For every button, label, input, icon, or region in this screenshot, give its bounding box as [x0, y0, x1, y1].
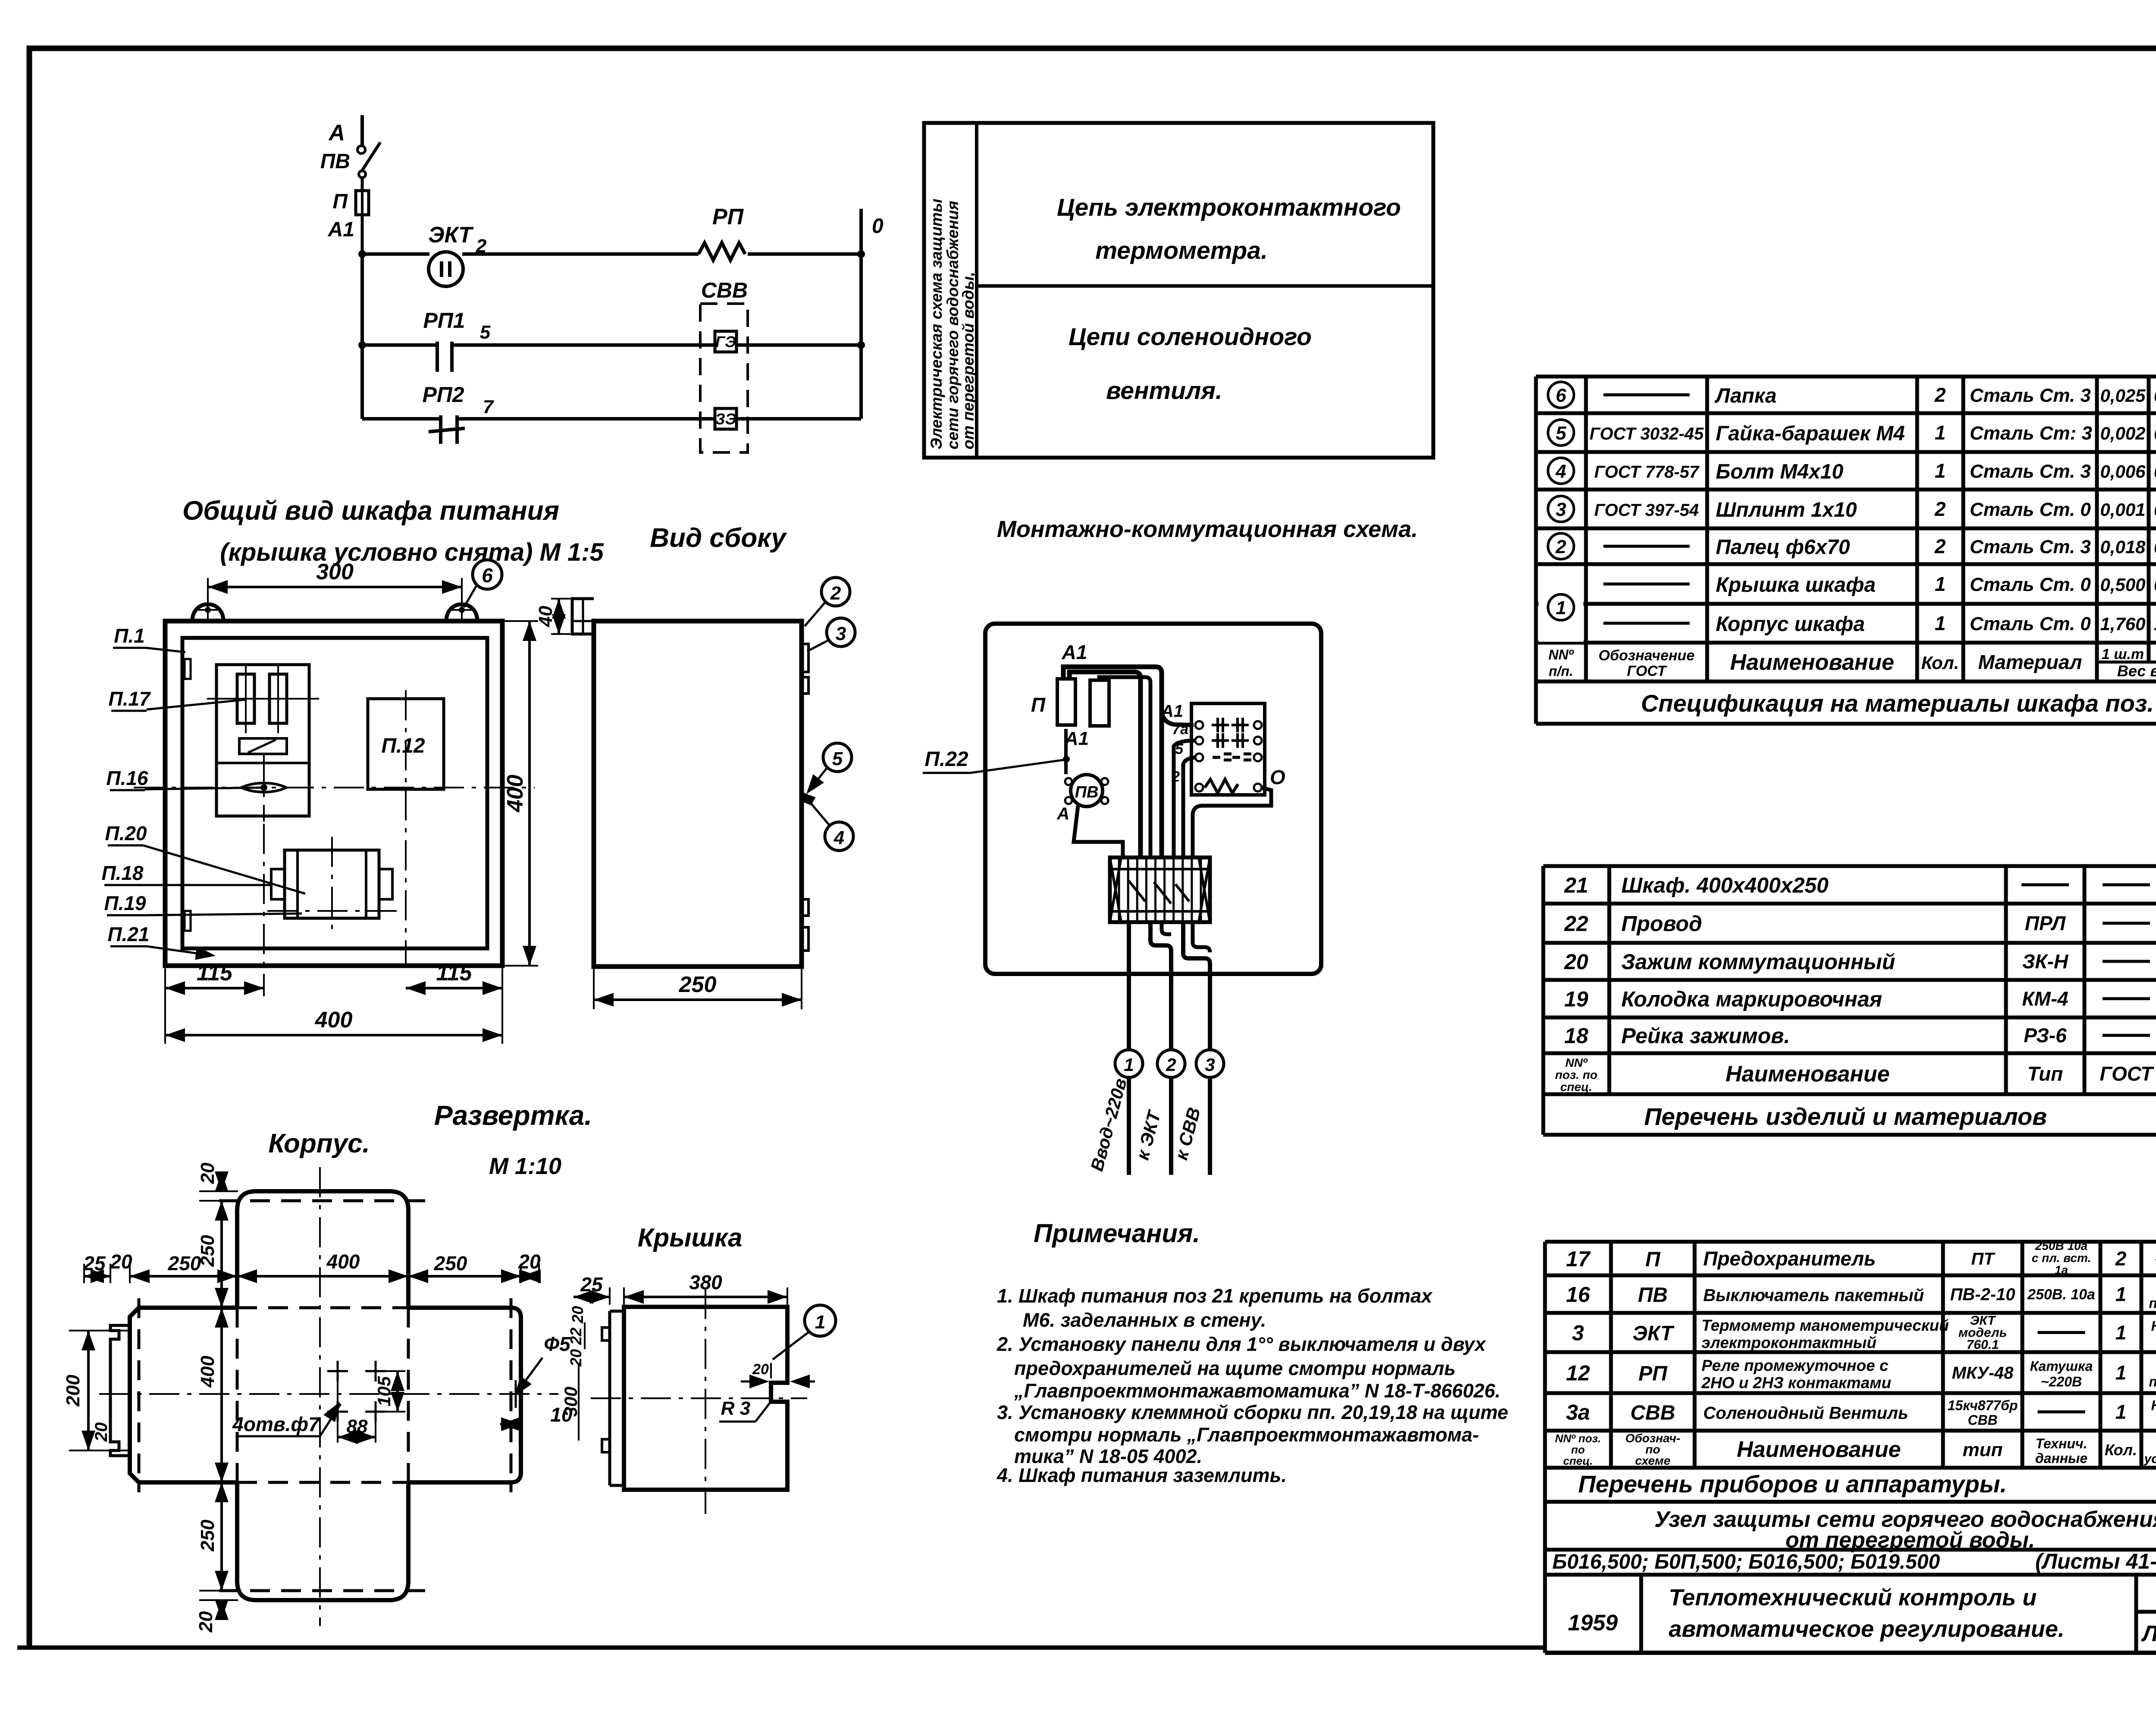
- svg-text:ГОСТ: ГОСТ: [1627, 663, 1667, 679]
- svg-text:сети горячего водоснабжения: сети горячего водоснабжения: [944, 201, 962, 449]
- svg-text:7а: 7а: [1172, 721, 1188, 738]
- table 2 rows content: [1564, 869, 2156, 1048]
- svg-text:П.20: П.20: [105, 822, 147, 844]
- device P12 rectangle: [368, 690, 444, 966]
- legend cell 2 text: [1069, 323, 1312, 405]
- svg-text:300: 300: [316, 559, 354, 584]
- svg-text:Примечания.: Примечания.: [1034, 1219, 1200, 1248]
- svg-text:0,036: 0,036: [2154, 537, 2156, 557]
- side view lug dimension 40: [535, 599, 570, 634]
- svg-text:П.22: П.22: [924, 748, 968, 771]
- svg-text:300: 300: [561, 1387, 581, 1417]
- svg-text:6: 6: [482, 564, 493, 587]
- korpus hole F5 and dim 10: [500, 1333, 573, 1431]
- svg-text:Монтажно-коммутационная схема.: Монтажно-коммутационная схема.: [997, 516, 1418, 542]
- svg-text:О: О: [1270, 766, 1285, 788]
- table 1 specification grid: [1536, 377, 2156, 724]
- svg-text:0,006: 0,006: [2100, 461, 2146, 482]
- svg-text:400: 400: [197, 1356, 218, 1388]
- svg-text:250: 250: [679, 972, 717, 997]
- svg-text:СВВ: СВВ: [701, 278, 748, 302]
- kryshka left dims: [561, 1306, 586, 1441]
- svg-text:ГОСТ 778-57: ГОСТ 778-57: [1594, 463, 1699, 482]
- montage label A1 mid: [1064, 728, 1089, 749]
- svg-text:Предохранитель: Предохранитель: [1703, 1247, 1876, 1270]
- table 1 footer title: [1641, 690, 2156, 717]
- svg-text:электроконтактный: электроконтактный: [1702, 1334, 1877, 1352]
- svg-text:Перечень приборов и аппарат: Перечень приборов и аппаратуры.: [1578, 1470, 2007, 1497]
- montage cable 2 bends: [1150, 922, 1171, 1050]
- svg-text:питания: питания: [2149, 1296, 2156, 1311]
- wire circle 1: [1087, 1050, 1143, 1175]
- left bus wire: [358, 254, 366, 419]
- svg-text:На агре-: На агре-: [2151, 1398, 2156, 1413]
- svg-text:250В 10а: 250В 10а: [2035, 1239, 2087, 1253]
- side view dimension 250: [594, 968, 802, 1009]
- svg-text:Гайка-барашек М4: Гайка-барашек М4: [1716, 422, 1905, 445]
- svg-text:(Листы 41-46): (Листы 41-46): [2035, 1549, 2156, 1573]
- svg-text:0,006: 0,006: [2154, 461, 2156, 482]
- contact RP1 (NO): [423, 308, 490, 372]
- svg-text:2НО и 2НЗ контактами: 2НО и 2НЗ контактами: [1701, 1374, 1891, 1392]
- montage wire PV to terminal block: [1066, 729, 1123, 857]
- svg-text:П.17: П.17: [108, 687, 151, 710]
- svg-text:Б016,500; Б0П,500; Б016,500; Б: Б016,500; Б0П,500; Б016,500; Б019.500: [1552, 1551, 1940, 1573]
- kryshka callout 1: [773, 1305, 836, 1359]
- svg-text:КМ-4: КМ-4: [2022, 988, 2068, 1010]
- svg-text:0,018: 0,018: [2100, 537, 2146, 557]
- kryshka notch dim 20: [741, 1361, 815, 1388]
- svg-text:5: 5: [480, 322, 491, 343]
- svg-text:20: 20: [567, 1349, 585, 1367]
- svg-text:1: 1: [815, 1312, 825, 1333]
- svg-text:1959: 1959: [1568, 1610, 1618, 1636]
- svg-text:(крышка условно снята) М 1:5: (крышка условно снята) М 1:5: [220, 538, 604, 566]
- solenoid valve SVV dashed box: [700, 278, 748, 452]
- electromagnet GE box on line 2: [715, 331, 736, 352]
- svg-text:5: 5: [832, 748, 843, 769]
- svg-text:Сталь Ст. 3: Сталь Ст. 3: [1970, 537, 2091, 558]
- svg-text:1: 1: [1935, 573, 1946, 595]
- svg-text:4отв.ф7: 4отв.ф7: [232, 1413, 320, 1435]
- svg-text:Сталь Ст: 3: Сталь Ст: 3: [1970, 423, 2092, 444]
- cabinet dimension 400 right: [503, 621, 538, 966]
- svg-text:1а: 1а: [2055, 1263, 2068, 1277]
- svg-text:2: 2: [1934, 498, 1946, 520]
- svg-text:Шкаф. 400х400х250: Шкаф. 400х400х250: [1621, 873, 1829, 898]
- svg-text:1: 1: [2115, 1362, 2127, 1384]
- svg-text:0,002: 0,002: [2154, 499, 2156, 520]
- svg-text:А1: А1: [1064, 728, 1089, 749]
- svg-text:тип: тип: [1963, 1439, 2003, 1460]
- thermometer EKT: [428, 223, 487, 286]
- korpus mounting holes: [327, 1361, 386, 1422]
- svg-text:1: 1: [2115, 1283, 2127, 1306]
- svg-text:п/п.: п/п.: [1549, 663, 1573, 679]
- cabinet mounting lug right: [446, 599, 477, 621]
- svg-text:с пл. вст.: с пл. вст.: [2032, 1251, 2091, 1265]
- svg-text:А1: А1: [1062, 641, 1087, 663]
- svg-text:Вид сбоку: Вид сбоку: [650, 523, 787, 553]
- svg-text:115: 115: [436, 961, 473, 986]
- svg-text:3а: 3а: [1566, 1400, 1590, 1425]
- title block: [1545, 1575, 2156, 1653]
- callout 5: [806, 743, 852, 794]
- table 3 devices grid: [1545, 1242, 2156, 1468]
- svg-text:П.19: П.19: [104, 892, 146, 914]
- svg-text:0,002: 0,002: [2154, 423, 2156, 443]
- svg-text:питания: питания: [2149, 1374, 2156, 1390]
- packet switch handle P16: [241, 755, 286, 822]
- title: side view: [650, 523, 787, 553]
- svg-text:400: 400: [315, 1008, 353, 1033]
- svg-text:1: 1: [1556, 597, 1566, 618]
- svg-text:Крышка шкафа: Крышка шкафа: [1716, 574, 1876, 596]
- svg-text:NNº: NNº: [1565, 1056, 1588, 1070]
- kryshka outline: [602, 1307, 787, 1490]
- svg-text:Тип: Тип: [2028, 1063, 2063, 1085]
- svg-text:1: 1: [2115, 1322, 2127, 1344]
- title: general view of power cabinet: [182, 496, 604, 566]
- label P21: [107, 923, 216, 960]
- svg-text:0,001: 0,001: [2100, 499, 2145, 520]
- svg-text:ЗК-Н: ЗК-Н: [2022, 950, 2068, 973]
- svg-text:А: А: [328, 120, 345, 145]
- svg-text:ПВ: ПВ: [320, 150, 350, 173]
- svg-text:ЗЭ: ЗЭ: [715, 410, 736, 428]
- korpus centerlines: [99, 1167, 558, 1626]
- svg-text:1: 1: [1935, 460, 1946, 482]
- svg-text:760.1: 760.1: [1966, 1338, 1999, 1352]
- svg-text:П.16: П.16: [106, 767, 148, 789]
- svg-text:NNº: NNº: [1548, 647, 1574, 662]
- svg-text:РП1: РП1: [423, 308, 465, 333]
- svg-text:спец.: спец.: [1560, 1080, 1592, 1094]
- montage wire relay coil return: [1193, 788, 1271, 857]
- svg-text:4: 4: [1555, 461, 1566, 482]
- title razvertka: [434, 1100, 592, 1131]
- svg-text:Теплотехнический контроль и: Теплотехнический контроль и: [1669, 1585, 2037, 1610]
- svg-text:П: П: [1031, 694, 1046, 716]
- svg-text:вентиля.: вентиля.: [1106, 377, 1222, 405]
- wire circle 2: [1132, 1050, 1185, 1175]
- svg-text:2: 2: [1934, 384, 1946, 406]
- svg-text:Болт М4х10: Болт М4х10: [1716, 461, 1843, 483]
- svg-text:Вес в кг.: Вес в кг.: [2117, 662, 2156, 680]
- svg-text:А: А: [1056, 804, 1069, 823]
- svg-text:2: 2: [476, 235, 487, 257]
- montage node for P22 leader: [1063, 756, 1070, 763]
- label P20: [105, 822, 305, 894]
- svg-text:20: 20: [518, 1250, 541, 1273]
- label P17: [108, 687, 246, 711]
- svg-text:ГОСТ: ГОСТ: [2100, 1063, 2155, 1085]
- notes title: [1034, 1219, 1200, 1248]
- kryshka centerlines: [591, 1289, 807, 1514]
- fuse panel P17: [207, 664, 319, 816]
- svg-text:2: 2: [2115, 1247, 2127, 1270]
- dimension 300 between lugs: [208, 559, 462, 603]
- svg-text:Цепи соленоидного: Цепи соленоидного: [1069, 323, 1312, 351]
- title M 1:10: [489, 1153, 561, 1179]
- svg-text:СВВ: СВВ: [1968, 1413, 1997, 1428]
- svg-text:Выключатель пакетный: Выключатель пакетный: [1703, 1286, 1924, 1305]
- svg-text:1: 1: [1935, 612, 1946, 634]
- callout 3: [807, 618, 855, 651]
- svg-text:20: 20: [92, 1422, 111, 1442]
- svg-text:схеме: схеме: [1635, 1454, 1670, 1467]
- svg-text:20: 20: [569, 1306, 586, 1324]
- wire circle 3: [1171, 1050, 1224, 1175]
- svg-text:спец.: спец.: [1563, 1454, 1593, 1467]
- svg-text:17: 17: [1566, 1247, 1591, 1271]
- svg-text:0,500: 0,500: [2154, 574, 2156, 595]
- svg-text:Наименование: Наименование: [1737, 1437, 1901, 1462]
- cabinet centerline horizontal: [134, 787, 535, 788]
- montage wires relay left to terminal block: [1174, 741, 1195, 857]
- svg-text:88: 88: [347, 1416, 368, 1437]
- svg-text:ПВ-2-10: ПВ-2-10: [1950, 1285, 2015, 1304]
- svg-text:Корпус шкафа: Корпус шкафа: [1716, 613, 1865, 636]
- svg-text:ПТ: ПТ: [1971, 1249, 1996, 1268]
- svg-text:25: 25: [580, 1273, 603, 1296]
- label P18: [101, 862, 271, 885]
- callout 2: [805, 578, 850, 626]
- svg-text:2: 2: [1166, 1055, 1176, 1075]
- table 1 rows content: [1548, 382, 2156, 636]
- svg-text:250: 250: [168, 1252, 201, 1275]
- wire switch to fuse: [361, 177, 364, 191]
- svg-text:Кол.: Кол.: [2105, 1441, 2137, 1459]
- svg-text:250: 250: [434, 1252, 467, 1275]
- title kryshka: [638, 1223, 743, 1252]
- svg-text:поз. по: поз. по: [1555, 1068, 1597, 1082]
- svg-text:0,025: 0,025: [2100, 386, 2146, 406]
- svg-text:Перечень изделий и материал: Перечень изделий и материалов: [1644, 1103, 2047, 1130]
- svg-text:На агре-: На агре-: [2151, 1318, 2156, 1334]
- svg-text:~220В: ~220В: [2041, 1374, 2082, 1390]
- korpus dim 88: [338, 1378, 376, 1444]
- svg-text:Зажим коммутационный: Зажим коммутационный: [1621, 950, 1895, 974]
- svg-text:Развертка.: Развертка.: [434, 1100, 592, 1131]
- svg-text:1,760: 1,760: [2154, 614, 2156, 634]
- svg-text:П: П: [1645, 1248, 1661, 1271]
- svg-text:22: 22: [1564, 912, 1589, 936]
- side view top lug: [572, 599, 594, 634]
- svg-text:ЭКТ: ЭКТ: [428, 223, 474, 248]
- svg-text:Катушка: Катушка: [2030, 1359, 2093, 1374]
- svg-text:П.12: П.12: [381, 735, 425, 757]
- svg-text:Реле промежуточное с: Реле промежуточное с: [1702, 1357, 1889, 1375]
- svg-text:„Главпроектмонтажавтоматика” N: „Главпроектмонтажавтоматика” N 18-Т-8660…: [1014, 1380, 1501, 1402]
- svg-text:3: 3: [1556, 499, 1566, 520]
- svg-text:термометра.: термометра.: [1095, 237, 1268, 264]
- svg-text:А1: А1: [328, 218, 354, 241]
- svg-text:1 ш.т: 1 ш.т: [2102, 646, 2144, 662]
- svg-text:автоматическое регулирование.: автоматическое регулирование.: [1669, 1616, 2065, 1642]
- svg-text:РП: РП: [712, 204, 744, 229]
- svg-text:Наименование: Наименование: [1730, 650, 1894, 675]
- cabinet dimension 400 bottom: [165, 996, 502, 1044]
- svg-text:Лист: Лист: [2141, 1621, 2156, 1646]
- korpus top dimension row: [83, 1250, 541, 1283]
- callout circle 6: [464, 560, 502, 607]
- svg-text:ЭКТ: ЭКТ: [1633, 1322, 1675, 1345]
- svg-text:А1: А1: [1161, 702, 1183, 721]
- svg-text:16: 16: [1566, 1283, 1591, 1307]
- svg-text:П.1: П.1: [114, 625, 144, 647]
- korpus left column vertical dims: [195, 1162, 238, 1632]
- svg-text:20: 20: [195, 1611, 216, 1632]
- svg-text:21: 21: [1564, 873, 1589, 898]
- svg-text:Технич.: Технич.: [2036, 1436, 2087, 1451]
- svg-text:Сталь Ст. 0: Сталь Ст. 0: [1970, 574, 2091, 595]
- svg-text:200: 200: [63, 1375, 84, 1407]
- svg-text:РП: РП: [1639, 1362, 1668, 1385]
- svg-text:400: 400: [326, 1250, 360, 1273]
- korpus hole leader 4otv: [232, 1402, 341, 1436]
- montage cable 1 to circle 1: [1127, 922, 1131, 1050]
- montage relay block: [1161, 702, 1285, 795]
- korpus left vertical dims 200 and 20: [63, 1331, 129, 1450]
- svg-text:Сталь Ст. 3: Сталь Ст. 3: [1970, 385, 2091, 406]
- table 2 footer title: [1644, 1103, 2047, 1130]
- svg-text:22: 22: [567, 1328, 585, 1345]
- svg-text:установки: установки: [2143, 1452, 2156, 1466]
- svg-text:1. Шкаф питания поз 21 крепи: 1. Шкаф питания поз 21 крепить на болтах: [997, 1285, 1433, 1307]
- legend vertical caption: [928, 199, 977, 449]
- callout 4: [811, 803, 853, 851]
- svg-text:0,025: 0,025: [2154, 386, 2156, 406]
- notes text: [997, 1285, 1508, 1486]
- table 3 rows content: [1566, 1239, 2156, 1429]
- electromagnet ZE box on line 3: [715, 408, 736, 429]
- svg-text:Палец ф6х70: Палец ф6х70: [1716, 536, 1850, 559]
- label P22 with leader: [923, 748, 1063, 773]
- relay coil RP (zigzag): [699, 204, 745, 260]
- montage scheme enclosure box: [985, 624, 1321, 974]
- node A label: [328, 120, 345, 145]
- kryshka R3 label: [719, 1398, 770, 1422]
- svg-text:Общий вид шкафа питания: Общий вид шкафа питания: [182, 496, 559, 526]
- svg-text:Провод: Провод: [1621, 912, 1702, 936]
- svg-text:250В. 10а: 250В. 10а: [2027, 1287, 2095, 1303]
- side view body: [594, 621, 802, 967]
- svg-text:1: 1: [1935, 421, 1946, 444]
- svg-text:Термометр манометрический: Термометр манометрический: [1702, 1317, 1949, 1334]
- svg-text:7: 7: [483, 396, 495, 418]
- cabinet front view outer body: [165, 621, 502, 966]
- korpus left tab with notches: [110, 1325, 130, 1456]
- svg-text:105: 105: [374, 1376, 394, 1406]
- svg-text:Материал: Материал: [1978, 651, 2082, 673]
- svg-text:250: 250: [197, 1235, 218, 1267]
- svg-text:5: 5: [1556, 423, 1567, 444]
- svg-text:Крышка: Крышка: [638, 1223, 743, 1252]
- node 0 right bus: [857, 209, 884, 419]
- montage fuse P: [1031, 679, 1075, 725]
- svg-text:40: 40: [535, 606, 556, 627]
- svg-text:0,002: 0,002: [2100, 423, 2145, 443]
- cabinet dimension 115 right: [406, 961, 502, 996]
- table 3 subtitle rows: [1545, 1468, 2156, 1653]
- table 2 products grid: [1543, 866, 2156, 1135]
- svg-text:Сталь Ст. 0: Сталь Ст. 0: [1970, 499, 2091, 520]
- svg-text:Цепь электроконтактного: Цепь электроконтактного: [1057, 194, 1401, 221]
- svg-text:М6. заделанных в стену.: М6. заделанных в стену.: [1023, 1309, 1266, 1331]
- svg-text:Шплинт 1х10: Шплинт 1х10: [1716, 499, 1857, 521]
- svg-text:Сталь Ст. 3: Сталь Ст. 3: [1970, 461, 2091, 482]
- svg-text:12: 12: [1566, 1361, 1590, 1385]
- svg-text:ГЭ: ГЭ: [715, 333, 736, 351]
- label P19: [104, 892, 302, 915]
- svg-text:115: 115: [197, 961, 233, 986]
- switch PV: [320, 142, 380, 178]
- svg-text:R 3: R 3: [721, 1398, 750, 1419]
- svg-text:от перегретой воды,: от перегретой воды,: [959, 272, 977, 449]
- title: montage-commutation scheme: [997, 516, 1418, 542]
- contact RP2 (NC): [422, 383, 494, 444]
- svg-text:18: 18: [1564, 1024, 1589, 1048]
- svg-text:1: 1: [2115, 1401, 2127, 1423]
- svg-text:2: 2: [830, 583, 841, 604]
- svg-text:МКУ-48: МКУ-48: [1952, 1364, 2014, 1383]
- fuse P: [332, 190, 369, 215]
- svg-text:Обозначение: Обозначение: [1598, 647, 1695, 664]
- cabinet mounting lug left: [192, 599, 223, 621]
- circuit line 2 wire: [362, 343, 861, 347]
- montage cable 3 bends: [1183, 922, 1210, 1050]
- svg-text:Кол.: Кол.: [1921, 653, 1959, 673]
- svg-text:Сталь Ст. 0: Сталь Ст. 0: [1970, 613, 2091, 634]
- svg-text:4: 4: [834, 827, 844, 848]
- circuit line 3 wire: [362, 417, 861, 421]
- wire fuse to node A1: [361, 215, 364, 254]
- svg-text:ГОСТ 397-54: ГОСТ 397-54: [1594, 501, 1699, 520]
- svg-text:ПВ: ПВ: [1075, 783, 1099, 801]
- svg-text:РЗ-6: РЗ-6: [2024, 1024, 2067, 1047]
- svg-text:250: 250: [197, 1519, 218, 1552]
- montage terminal block: [1110, 857, 1210, 922]
- svg-text:20: 20: [752, 1361, 769, 1378]
- svg-text:3. Установку клеммной сборки: 3. Установку клеммной сборки пп. 20,19,1…: [997, 1401, 1508, 1423]
- legend cell 1 text: [1057, 194, 1401, 264]
- title korpus: [268, 1129, 370, 1158]
- korpus development outline: [130, 1191, 521, 1600]
- kryshka dim 25 and 380: [573, 1271, 787, 1305]
- svg-text:смотри нормаль „Главпроектмон: смотри нормаль „Главпроектмонтажавтома-: [1014, 1424, 1479, 1446]
- svg-text:20: 20: [110, 1250, 132, 1273]
- svg-text:3: 3: [836, 623, 846, 644]
- svg-text:Соленоидный Вентиль: Соленоидный Вентиль: [1703, 1404, 1908, 1423]
- svg-text:19: 19: [1564, 987, 1589, 1011]
- svg-text:2. Установку панели для 1°° вы: 2. Установку панели для 1°° выключателя …: [997, 1333, 1486, 1355]
- svg-text:1,760: 1,760: [2100, 614, 2145, 634]
- label P16: [106, 767, 264, 790]
- montage fuse 2: [1090, 680, 1109, 726]
- legend box: electric scheme description: [924, 123, 1433, 458]
- table 2 header: [1555, 1056, 2156, 1094]
- svg-text:П: П: [332, 190, 348, 213]
- svg-text:400: 400: [503, 775, 528, 813]
- montage switch PV circle: [1056, 775, 1108, 823]
- svg-text:ПРЛ: ПРЛ: [2025, 912, 2066, 935]
- svg-text:20: 20: [1564, 950, 1589, 974]
- svg-text:3: 3: [1572, 1321, 1584, 1345]
- svg-text:Спецификация на материалы ш: Спецификация на материалы шкафа поз. 21.: [1641, 690, 2156, 717]
- svg-text:Электрическая схема защиты: Электрическая схема защиты: [928, 199, 945, 449]
- montage label A1 top: [1062, 641, 1087, 663]
